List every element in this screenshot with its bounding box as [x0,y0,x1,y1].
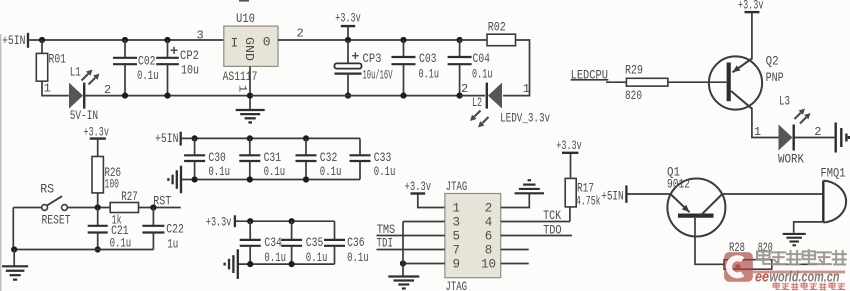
pin numbers 7/8 [453,244,493,258]
svg-text:C03: C03 [419,51,437,66]
svg-text:0.1u: 0.1u [306,250,328,265]
svg-text:0.1u: 0.1u [419,66,440,81]
svg-text:+: + [352,49,360,64]
svg-text:+3.3v: +3.3v [405,179,432,194]
svg-text:CP2: CP2 [180,48,199,63]
power tick +5IN [27,33,29,48]
svg-text:1: 1 [236,85,248,93]
svg-text:+5IN: +5IN [155,131,179,146]
capacitor C03 [392,37,440,99]
power +3.3v JTAG [405,179,432,194]
capacitor C35 [281,218,327,267]
label RESET [42,213,71,228]
wire R02 to L2 [503,40,530,96]
svg-text:CP3: CP3 [363,51,382,66]
label TCK [543,208,561,223]
net label +3.3v bank [206,215,232,230]
pin1 label U10 [236,85,248,93]
svg-text:1: 1 [754,125,761,139]
svg-text:0.1u: 0.1u [264,164,286,179]
wire gnd rail mid [251,95,460,97]
svg-text:1: 1 [453,202,461,216]
svg-text:0.1u: 0.1u [264,250,286,265]
capacitor C30 [184,135,230,182]
svg-text:C33: C33 [374,150,392,165]
svg-text:4: 4 [485,216,493,230]
label TMS [377,222,396,237]
capacitor C02 [113,37,159,99]
resistor R01 [36,40,66,96]
svg-text:7: 7 [453,244,461,258]
svg-text:GND: GND [242,37,256,61]
wire R27 to RST [139,204,181,210]
svg-text:1: 1 [44,82,51,96]
svg-text:Q2: Q2 [766,53,779,68]
svg-text:WORK: WORK [778,151,804,166]
svg-text:9: 9 [453,258,461,272]
svg-text:5V-IN: 5V-IN [70,108,98,123]
wire U10 gnd [247,66,253,109]
regulator U10 [197,11,304,84]
svg-text:0.1u: 0.1u [347,250,369,265]
resistor R17 [565,178,601,208]
svg-text:3: 3 [197,29,204,43]
label 5V-IN [70,108,98,123]
ground up JTAG [515,180,544,193]
ground reset [2,266,28,279]
power +3.3v Q2 [738,0,764,60]
svg-text:C32: C32 [320,150,338,165]
transistor Q2 [709,53,784,109]
net label +5IN [2,33,26,48]
power tick +3.3v bank [234,215,236,227]
svg-text:U10: U10 [236,11,255,26]
label TDI [377,236,394,251]
wire pin9 [400,260,445,266]
wire L3 to ground [795,137,835,139]
connector JTAG [445,179,501,291]
wire R17 top [570,154,572,178]
ground right of L3 [836,123,849,153]
wire TDI pin7 [377,249,445,251]
svg-text:9012: 9012 [667,177,690,192]
wire R01 to L1 [42,81,69,95]
wire jtag gnd bus [402,222,404,277]
svg-text:JTAG: JTAG [446,279,468,291]
svg-text:TDI: TDI [377,236,394,251]
resistor R27 [110,189,138,228]
ground U10 [236,110,265,122]
label RS [40,181,54,196]
wire gnd rail left [83,95,251,97]
pin numbers 9/10 [453,258,496,272]
svg-text:C04: C04 [473,51,491,66]
wire pin10 [501,263,529,265]
svg-text:3: 3 [453,216,461,230]
svg-text:+3.3v: +3.3v [206,215,232,230]
svg-text:+3.3v: +3.3v [738,0,764,13]
wire bank2 bottom rail [239,263,335,265]
ground bank2 [225,249,238,279]
LED L3 [754,93,822,150]
wire FMQ1 to ground [794,222,824,233]
wire +5V rail left [28,39,224,41]
transistor Q1 [667,164,725,236]
svg-text:FMQ1: FMQ1 [821,165,846,180]
svg-text:+3.3v: +3.3v [556,138,582,153]
svg-text:+5IN: +5IN [601,188,624,203]
svg-text:C30: C30 [208,150,226,165]
wire Q1 base to R28 [695,218,724,264]
power tick +5IN Q1 [601,185,626,203]
svg-text:L1: L1 [70,65,81,80]
svg-text:RS: RS [40,181,54,196]
svg-text:8: 8 [485,244,493,258]
wire R26 bottom [97,193,99,208]
wire R28 right [772,263,817,265]
svg-text:PNP: PNP [766,70,784,85]
svg-text:2: 2 [485,202,493,216]
svg-text:C35: C35 [306,235,324,250]
svg-text:R01: R01 [49,52,67,67]
wire R29 to Q2 base [668,81,727,83]
wire reset gnd rail [11,208,153,253]
wire LEDCPU to R29 [606,81,626,83]
svg-text:C34: C34 [264,235,282,250]
svg-text:C36: C36 [347,235,365,250]
svg-text:TDO: TDO [543,222,562,237]
svg-text:0.1u: 0.1u [320,164,342,179]
svg-text:1u: 1u [167,236,178,251]
ground bank1 [168,166,181,194]
label LEDV_3.3v [500,110,550,125]
wire pin2 to ground [501,193,530,207]
pin numbers 5/6 [453,230,493,244]
svg-text:2: 2 [297,27,304,41]
LED L1 [69,65,111,109]
capacitor C04 [448,37,493,99]
wire pin8 [501,249,529,251]
svg-text:100: 100 [105,177,120,192]
label RST [153,193,171,208]
svg-text:5: 5 [453,230,461,244]
svg-text:2: 2 [461,82,468,96]
svg-text:TCK: TCK [543,208,561,223]
svg-text:0: 0 [263,35,271,50]
capacitor C21 [88,208,132,253]
svg-text:L2: L2 [472,95,482,110]
svg-text:RST: RST [153,193,171,208]
svg-text:C02: C02 [138,53,156,68]
capacitor C36 [324,221,369,265]
svg-text:I: I [231,35,239,50]
svg-text:R02: R02 [488,19,506,34]
power +3.3v main [335,10,361,40]
ground JTAG left [388,277,419,289]
power +3.3v R17 [556,138,582,153]
svg-text:820: 820 [625,88,642,103]
wire R17 to TCK [569,207,571,222]
scan mark top [239,0,249,2]
node R01 top [39,37,45,43]
LED L2 [461,82,530,127]
net label +5IN bank [155,131,179,146]
wire TMS pin5 [377,235,445,237]
svg-text:10u/16V: 10u/16V [363,68,393,83]
svg-text:C31: C31 [264,150,282,165]
wire bank1 bottom rail [182,179,360,181]
capacitor CP3 [335,40,393,99]
net label LEDCPU [571,67,609,82]
ground FMQ1 [783,234,806,245]
svg-text:ee: ee [755,269,769,285]
svg-text:10: 10 [481,258,496,272]
capacitor CP2 [156,37,199,99]
wire bank2 top rail [235,220,335,222]
svg-text:LEDV_3.3v: LEDV_3.3v [500,110,550,125]
wire Q2 collector [752,108,779,138]
svg-text:C22: C22 [166,221,184,236]
svg-text:RESET: RESET [42,213,71,228]
svg-text:R27: R27 [121,189,138,204]
resistor R28 [724,240,773,269]
svg-text:10u: 10u [181,63,199,78]
svg-text:AS1117: AS1117 [223,69,258,84]
svg-text:R29: R29 [625,62,643,77]
svg-text:+: + [170,45,178,60]
pin numbers 1/2 [453,202,493,216]
svg-text:1: 1 [523,82,530,96]
svg-text:6: 6 [485,230,493,244]
capacitor C31 [239,135,285,182]
wire pin4 TCK [501,221,570,223]
power +3.3v R26 [84,125,110,157]
wire pin3 [403,221,445,223]
svg-text:L3: L3 [779,93,790,108]
svg-text:0.1u: 0.1u [208,164,230,179]
watermark eeworld logo [724,250,846,289]
resistor R02 [460,19,516,45]
svg-text:0.1u: 0.1u [110,236,132,251]
power tick +5IN bank [180,132,182,146]
node CP3 top [345,37,351,43]
scan edge left [0,34,1,291]
wire C04 to L2 [460,95,485,97]
pin numbers 3/4 [453,216,493,230]
svg-text:+3.3v: +3.3v [335,10,361,25]
svg-text:0.1u: 0.1u [137,68,159,83]
capacitor C34 [240,218,286,267]
resistor R26 [92,157,121,193]
wire +5IN to Q1 [628,193,671,195]
svg-text:JTAG: JTAG [446,179,468,194]
label WORK [778,151,804,166]
resistor R29 [625,62,668,103]
svg-text:0.1u: 0.1u [472,66,493,81]
svg-text:820: 820 [758,240,773,255]
wire +3.3V rail [278,39,460,41]
svg-text:4.75k: 4.75k [576,194,601,209]
buzzer FMQ1 [821,165,847,222]
capacitor C32 [296,135,342,182]
wire +3.3v to pin1 [418,195,445,208]
label TDO [543,222,562,237]
svg-text:0.1u: 0.1u [374,164,396,179]
node R26 bottom [95,204,101,210]
wire Q1 collector to FMQ1 [722,193,822,195]
wire to reset ground [13,250,15,266]
svg-text:+5IN: +5IN [2,33,26,48]
switch RS [13,196,110,210]
capacitor C22 [142,208,183,252]
wire pin6 TDO [501,235,572,237]
wire bank1 top rail [181,137,360,139]
capacitor C33 [350,138,396,179]
